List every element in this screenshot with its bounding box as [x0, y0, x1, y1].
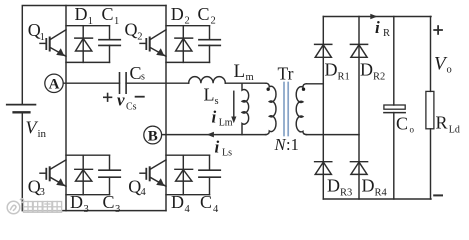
svg-text:L: L	[204, 85, 215, 105]
label i_R	[375, 18, 390, 39]
label C4	[200, 192, 219, 215]
svg-text:R: R	[383, 28, 390, 39]
diode D3 cell wires	[66, 154, 110, 156]
transformer T primary winding	[266, 83, 276, 134]
label DR4	[362, 176, 388, 199]
label i_Ls	[215, 138, 233, 159]
svg-text:4: 4	[141, 187, 147, 198]
svg-text:R4: R4	[375, 188, 388, 199]
svg-text:Q: Q	[128, 176, 141, 196]
wire secondary top to rectifier	[306, 83, 323, 85]
svg-text:3: 3	[40, 187, 45, 198]
label + output	[434, 26, 442, 34]
wire leg2	[165, 6, 167, 211]
inductor Ls	[189, 77, 226, 84]
svg-text:A: A	[49, 77, 60, 93]
svg-text:1: 1	[88, 16, 93, 27]
svg-text:4: 4	[213, 204, 219, 215]
svg-text:R: R	[436, 113, 448, 133]
node B	[144, 126, 162, 144]
svg-text:C: C	[200, 192, 212, 212]
transistor Q3	[40, 160, 66, 186]
svg-text:Ls: Ls	[222, 148, 232, 159]
capacitor Cs	[120, 73, 127, 93]
svg-text:C: C	[198, 4, 210, 24]
svg-text:Cs: Cs	[126, 102, 137, 113]
diode D2	[175, 26, 193, 63]
label Vo	[434, 54, 452, 76]
transistor Q1	[40, 30, 66, 57]
battery V_in plate short	[14, 111, 30, 113]
label Tr	[278, 64, 294, 84]
svg-text:C: C	[396, 114, 408, 134]
label D2	[171, 4, 190, 27]
wire rectifier bottom rail	[323, 198, 431, 200]
label C3	[103, 192, 121, 215]
label Q1	[28, 20, 45, 43]
wire Cs to Ls	[126, 82, 189, 84]
label D3	[70, 192, 89, 215]
label - output	[434, 194, 442, 196]
svg-text:i: i	[375, 18, 380, 37]
capacitor C3	[99, 155, 120, 195]
svg-text:1: 1	[114, 16, 119, 27]
transistor Q2	[140, 30, 166, 57]
wire B return from transformer	[162, 134, 266, 136]
label D4	[171, 192, 191, 215]
diode DR1	[315, 44, 332, 57]
wire rectifier leg v2	[358, 17, 360, 200]
label C2	[198, 4, 216, 27]
diode D4 cell wires	[166, 154, 210, 156]
svg-text:R2: R2	[373, 72, 385, 83]
wire Ls to transformer	[225, 82, 266, 84]
label RLd	[436, 113, 460, 136]
capacitor Co	[384, 17, 405, 200]
svg-text:m: m	[246, 72, 254, 83]
svg-text:D: D	[70, 192, 83, 212]
svg-text:C: C	[102, 4, 114, 24]
svg-text:D: D	[325, 60, 338, 80]
label Cs	[130, 63, 146, 83]
svg-text:N: N	[274, 135, 287, 154]
svg-text:R1: R1	[338, 72, 350, 83]
wire rectifier top rail	[323, 16, 431, 18]
diode D1	[75, 26, 93, 63]
svg-text:D: D	[360, 60, 373, 80]
diode D3	[75, 155, 93, 195]
svg-text:3: 3	[115, 204, 120, 215]
watermark text	[24, 202, 62, 213]
svg-text:v: v	[117, 91, 125, 110]
wire rectifier leg v1	[322, 17, 324, 200]
diode D2 cell wires	[166, 25, 210, 27]
svg-text:D: D	[171, 4, 184, 24]
resistor RLd	[426, 17, 434, 200]
svg-text:B: B	[148, 128, 158, 144]
diode DR2	[350, 44, 367, 57]
svg-text:i: i	[215, 138, 220, 157]
label DR2	[360, 60, 385, 83]
svg-text:D: D	[362, 176, 375, 196]
label +vCs-	[104, 94, 144, 102]
svg-text::1: :1	[286, 135, 299, 154]
wire leg1	[65, 6, 67, 211]
svg-text:R3: R3	[340, 188, 352, 199]
label Ls	[204, 85, 219, 108]
svg-text:Ld: Ld	[449, 124, 460, 135]
svg-text:o: o	[447, 65, 452, 76]
arrow i_R	[370, 14, 377, 20]
svg-text:2: 2	[185, 16, 190, 27]
label i_Lm	[212, 108, 233, 129]
label Co	[396, 114, 415, 135]
label N:1	[274, 135, 299, 154]
watermark logo	[7, 199, 23, 214]
capacitor C1	[99, 26, 120, 63]
label D1	[75, 4, 94, 27]
svg-text:1: 1	[40, 32, 45, 43]
svg-text:s: s	[141, 72, 145, 83]
arrow i_Lm	[231, 91, 236, 123]
svg-text:3: 3	[84, 204, 89, 215]
wire node A to Cs	[63, 82, 119, 84]
svg-text:C: C	[130, 63, 142, 83]
diode DR4	[350, 162, 367, 175]
transformer secondary winding	[296, 84, 306, 135]
label DR1	[325, 60, 350, 83]
svg-text:4: 4	[185, 204, 191, 215]
svg-text:D: D	[171, 192, 184, 212]
svg-text:i: i	[212, 108, 217, 127]
svg-text:D: D	[327, 176, 340, 196]
label DR3	[327, 176, 352, 199]
label Lm	[234, 61, 254, 83]
label Q3	[28, 177, 45, 198]
svg-text:s: s	[215, 96, 219, 107]
svg-text:o: o	[410, 125, 415, 135]
label Q4	[128, 176, 146, 197]
svg-text:L: L	[234, 61, 246, 82]
svg-text:C: C	[103, 192, 115, 212]
svg-text:D: D	[75, 4, 88, 24]
transformer secondary dot	[302, 88, 305, 91]
transformer primary dot	[267, 88, 270, 91]
wire bottom rail	[22, 112, 166, 210]
svg-text:2: 2	[137, 32, 142, 43]
transistor Q4	[140, 160, 166, 186]
diode D4	[175, 155, 193, 195]
wire secondary bottom to rectifier	[306, 134, 359, 136]
label V_in	[26, 118, 47, 141]
label Q2	[125, 20, 143, 43]
diode D1 cell wires	[66, 25, 110, 27]
svg-text:Tr: Tr	[278, 64, 294, 84]
battery V_in plate long	[7, 104, 36, 106]
wire top rail	[22, 6, 166, 105]
inductor Lm	[242, 83, 249, 134]
node A	[45, 74, 63, 92]
label C1	[102, 4, 120, 27]
svg-text:Lm: Lm	[219, 118, 233, 129]
svg-text:in: in	[38, 128, 47, 140]
transformer core	[284, 83, 288, 136]
svg-text:Q: Q	[125, 20, 138, 40]
diode DR3	[315, 162, 332, 175]
capacitor C2	[199, 26, 220, 63]
svg-text:2: 2	[211, 16, 216, 27]
capacitor C4	[199, 155, 220, 195]
arrow i_Ls	[207, 132, 214, 138]
